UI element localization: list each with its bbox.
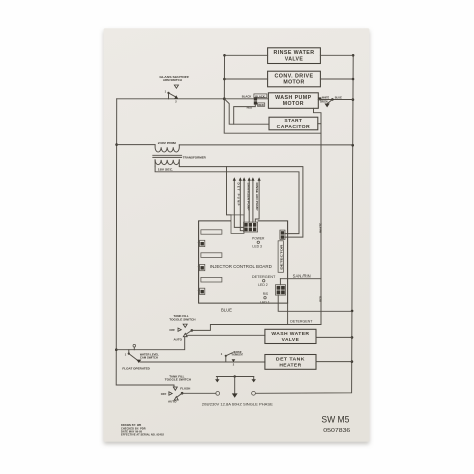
led LED2 detergent — [252, 275, 276, 287]
led LED3 power — [252, 237, 265, 249]
svg-text:WHITE: WHITE — [319, 222, 323, 232]
wire red motor lead — [234, 105, 256, 125]
wire return to bus — [278, 295, 352, 311]
wire red drop detergent — [288, 279, 321, 325]
svg-text:R/S: R/S — [263, 292, 268, 296]
svg-text:TOGGLE SWITCH: TOGGLE SWITCH — [165, 377, 191, 381]
svg-text:EFFECTIVE AT SERIAL NO. 92402: EFFECTIVE AT SERIAL NO. 92402 — [121, 434, 165, 437]
wire blue to bus — [318, 99, 353, 101]
wash pump motor box M2 — [268, 93, 318, 109]
svg-text:GREEN: GREEN — [320, 100, 328, 103]
svg-text:DETERGENT: DETERGENT — [290, 320, 313, 324]
ground chassis arrow under motor — [325, 99, 333, 107]
svg-text:RINSE AID PUMP: RINSE AID PUMP — [255, 183, 259, 211]
ground earth assembly — [215, 375, 256, 398]
svg-text:18V SEC.: 18V SEC. — [158, 167, 174, 171]
label san rin — [293, 274, 311, 279]
svg-text:0507836: 0507836 — [323, 428, 350, 434]
node right bus top junction — [352, 54, 355, 57]
det tank heater box H1 — [265, 355, 316, 370]
svg-text:START: START — [284, 118, 302, 124]
svg-text:SW M5: SW M5 — [321, 414, 349, 425]
wire rinse valve right — [320, 54, 353, 56]
svg-text:SANITIZER PUMP: SANITIZER PUMP — [247, 183, 251, 211]
led LED1 rs — [260, 292, 270, 305]
svg-text:AUTO: AUTO — [168, 400, 177, 404]
label detergent wire — [290, 320, 313, 324]
node left bus cam-switch junction — [115, 348, 118, 351]
svg-text:POWER: POWER — [252, 237, 265, 241]
wire transformer secondary lower to board pin — [155, 166, 299, 233]
svg-text:MOTOR: MOTOR — [283, 80, 304, 86]
svg-text:TOGGLE SWITCH: TOGGLE SWITCH — [169, 317, 195, 321]
svg-text:LED 1: LED 1 — [260, 301, 270, 305]
wire conv drive right — [320, 78, 353, 80]
node blue junction — [331, 98, 334, 101]
wire toggle to detergent line — [192, 325, 321, 331]
wire feeder vertical to valve and motor — [224, 55, 321, 133]
svg-text:240V PRIM: 240V PRIM — [158, 141, 176, 145]
relay K3 contact — [198, 288, 205, 294]
svg-text:208/230V 12.8A 60HZ SINGLE PHA: 208/230V 12.8A 60HZ SINGLE PHASE — [202, 403, 274, 407]
wire toggle to terminal — [182, 392, 216, 394]
wire toggle auto to bus — [116, 337, 184, 350]
wire wash valve right — [316, 336, 352, 338]
svg-text:OFF: OFF — [161, 392, 167, 396]
svg-text:BLACK: BLACK — [242, 95, 252, 98]
terminal L1 circle — [216, 392, 220, 396]
rinse water valve box RV1 — [268, 48, 321, 64]
wire rinse valve left — [225, 54, 268, 56]
svg-text:CAM SWITCH: CAM SWITCH — [140, 356, 158, 360]
wire main line — [117, 98, 269, 100]
conv drive motor box M1 — [268, 71, 321, 87]
wire start capacitor left — [224, 99, 269, 124]
connector P2 white green blue — [319, 97, 343, 104]
svg-text:HEATER: HEATER — [279, 363, 301, 369]
start capacitor box C1 — [269, 117, 318, 130]
switch S4 heater thermostat — [221, 351, 244, 367]
svg-text:SAN./RIN: SAN./RIN — [293, 274, 311, 279]
label injector control board — [210, 264, 272, 269]
connector J4 four pin — [276, 279, 286, 295]
op board U1 injector control board outline — [199, 221, 288, 303]
wire white drop — [314, 108, 322, 278]
switch S1 glass shutoff arm switch — [159, 75, 189, 104]
wire to wash water valve — [187, 334, 265, 336]
wash water valve box WV1 — [265, 329, 316, 343]
connector J1 six pin — [244, 222, 258, 232]
wire right bus — [256, 55, 354, 393]
svg-text:RINSE WATER: RINSE WATER — [274, 50, 315, 56]
svg-text:FLOAT OPERATED: FLOAT OPERATED — [122, 367, 150, 371]
paper sheet — [104, 28, 370, 441]
svg-text:RED: RED — [258, 104, 264, 107]
label supply rating — [202, 403, 274, 407]
label rinse aid pump — [255, 183, 259, 211]
svg-text:RED: RED — [319, 296, 323, 302]
switch S3 water level cam switch — [122, 344, 159, 370]
label red vertical — [319, 296, 323, 302]
node right bus transformer junction — [351, 144, 354, 147]
relay K3 coil slot — [201, 277, 222, 282]
transformer T1 — [153, 141, 207, 172]
svg-text:INJECTOR CONTROL BOARD: INJECTOR CONTROL BOARD — [210, 264, 272, 269]
relay K2 contact — [198, 264, 205, 270]
svg-text:WASH WATER: WASH WATER — [271, 331, 309, 337]
node feeder top junction — [223, 54, 226, 57]
wire conv drive left — [224, 78, 267, 80]
label det pump — [236, 183, 240, 206]
node feeder main junction — [223, 97, 226, 100]
svg-text:VALVE: VALVE — [285, 56, 304, 62]
connector shell plug — [231, 215, 244, 234]
svg-text:TRANSFORMER: TRANSFORMER — [183, 155, 207, 159]
svg-text:THERMOSTAT: THERMOSTAT — [231, 354, 243, 357]
svg-text:ARM SWITCH: ARM SWITCH — [163, 78, 182, 82]
svg-text:LED 3: LED 3 — [252, 245, 262, 249]
svg-text:MOTOR: MOTOR — [283, 101, 304, 107]
svg-text:FLUSH: FLUSH — [180, 387, 190, 391]
relay K1 coil slot — [201, 230, 222, 234]
wire heater right — [316, 361, 352, 363]
wire pump leads with arrows — [233, 177, 261, 231]
wire heater line — [141, 361, 265, 363]
svg-text:DET TANK: DET TANK — [276, 356, 305, 362]
label blue — [221, 307, 232, 312]
svg-text:AUTO: AUTO — [174, 337, 183, 341]
label SW M5 — [321, 414, 349, 425]
node right bus blue junction — [352, 98, 355, 101]
wire san rin — [280, 278, 321, 280]
connector J2 two pin — [280, 230, 285, 239]
node right bus conv-drive junction — [352, 78, 355, 81]
terminal L2 circle — [252, 391, 256, 395]
switch S2 tank fill toggle upper — [169, 314, 195, 341]
svg-text:BLUE: BLUE — [221, 307, 232, 312]
wire start capacitor right — [318, 123, 321, 125]
node right bus heater junction — [351, 360, 354, 363]
svg-text:OFF: OFF — [169, 328, 175, 332]
relay K2 coil slot — [201, 253, 222, 258]
svg-text:DETERGENT: DETERGENT — [252, 275, 276, 279]
svg-text:WASH PUMP: WASH PUMP — [275, 95, 312, 101]
svg-text:DET PUMP: DET PUMP — [236, 183, 240, 206]
wire transformer primary right — [179, 144, 352, 146]
wire transformer primary left — [117, 144, 156, 146]
svg-text:CAPACITOR: CAPACITOR — [277, 124, 311, 130]
svg-text:LED 2: LED 2 — [258, 283, 268, 287]
node right bus valve junction — [351, 336, 354, 339]
svg-text:DETECTOR: DETECTOR — [279, 245, 283, 270]
connector J3 detector vertical — [278, 241, 283, 272]
label white vertical — [319, 222, 323, 232]
svg-text:VALVE: VALVE — [282, 337, 300, 343]
connector P1 black leads — [242, 94, 267, 110]
switch S5 tank fill toggle lower — [161, 374, 191, 403]
node feeder conv junction — [223, 78, 226, 81]
node right bus return junction — [351, 310, 354, 313]
label sanitizer pump — [247, 183, 251, 211]
label title block — [121, 424, 165, 436]
label part number — [323, 428, 350, 434]
wire shell feeder — [227, 167, 232, 215]
node left bus transformer junction — [115, 143, 118, 146]
svg-text:CONV. DRIVE: CONV. DRIVE — [275, 73, 314, 79]
relay K1 contact — [198, 240, 205, 246]
wire transformer secondary upper to board pin — [179, 166, 303, 237]
wire left bus — [116, 99, 174, 385]
